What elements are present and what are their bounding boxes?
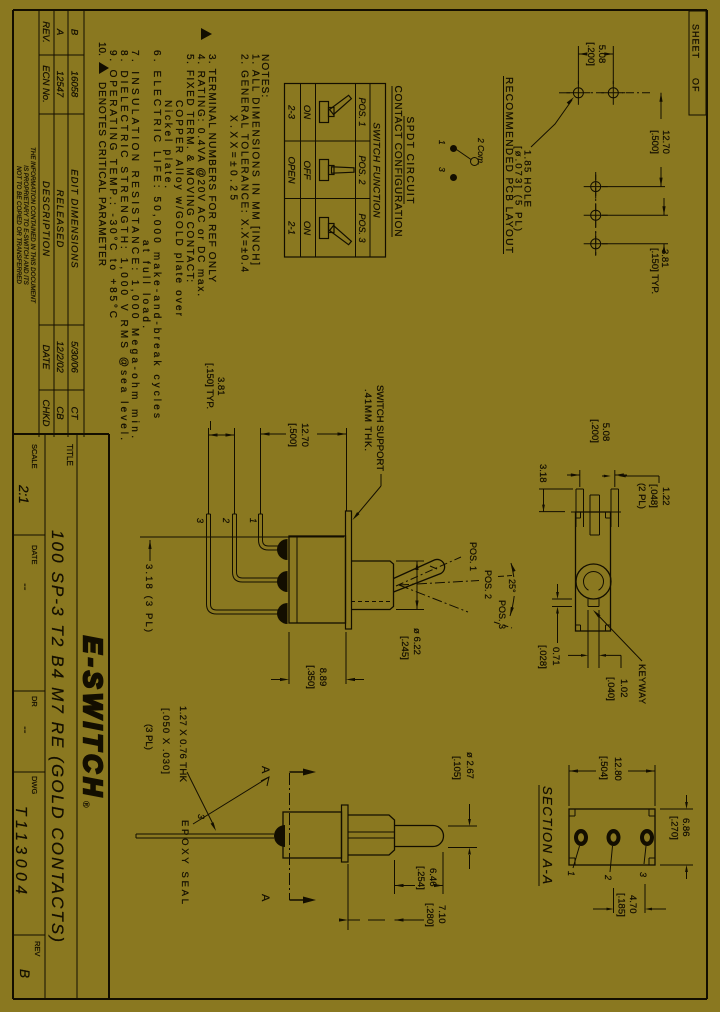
dim 4.70 ext lines [644, 884, 646, 913]
svg-text:[.500]: [.500] [287, 423, 298, 447]
svg-text:1.27 X 0.76 THK: 1.27 X 0.76 THK [177, 706, 188, 783]
svg-text:.41MM THK.: .41MM THK. [362, 389, 373, 451]
title block cell dividers [13, 534, 45, 536]
svg-text:ø 2.67: ø 2.67 [464, 752, 475, 779]
svg-text:[.050 X .030]: [.050 X .030] [160, 708, 171, 774]
dim 5.08 ext lines [612, 46, 614, 84]
svg-text:[.504]: [.504] [598, 756, 609, 780]
svg-text:KEYWAY: KEYWAY [637, 664, 647, 704]
dim 8.89 arrows [355, 679, 364, 681]
circuit contact 3 [451, 175, 457, 181]
svg-text:3: 3 [638, 872, 648, 877]
toggle icon pos3 [320, 218, 329, 239]
svg-text:ø 6.22: ø 6.22 [411, 628, 422, 655]
svg-text:--: -- [19, 726, 31, 734]
svg-text:OF: OF [691, 78, 701, 93]
svg-text:2-3: 2-3 [286, 104, 297, 119]
lower view body [283, 812, 342, 858]
svg-text:1.22: 1.22 [660, 487, 671, 506]
svg-text:at full load.: at full load. [140, 240, 151, 328]
terminal pin 3 [207, 514, 279, 614]
svg-text:EDIT DIMENSIONS: EDIT DIMENSIONS [69, 169, 80, 268]
svg-text:--: -- [19, 583, 31, 591]
svg-text:3: 3 [437, 167, 447, 172]
svg-text:E-SWITCH: E-SWITCH [78, 636, 108, 797]
svg-text:3. TERMINAL NUMBERS FOR REF ON: 3. TERMINAL NUMBERS FOR REF ONLY [206, 54, 217, 282]
svg-text:DENOTES CRITICAL PARAMETER: DENOTES CRITICAL PARAMETER [96, 82, 107, 266]
pos3 centerline [399, 585, 468, 612]
svg-text:3: 3 [195, 518, 205, 523]
dim 3.81 line+arrows [663, 198, 665, 215]
dim 6.22 ext lines [396, 560, 424, 562]
svg-text:3.18: 3.18 [537, 464, 548, 483]
section corner notches [649, 815, 655, 817]
svg-text:OPEN: OPEN [286, 157, 297, 184]
dim 12.80 ext lines [654, 765, 656, 806]
side view body [289, 536, 346, 623]
svg-text:[.500]: [.500] [649, 130, 660, 154]
leader 1.85 hole [531, 100, 572, 147]
svg-text:2: 2 [221, 517, 231, 523]
svg-text:X.XX=±0.25: X.XX=±0.25 [228, 115, 239, 200]
dim 2.67 arrows [469, 804, 471, 819]
pos2 centerline [399, 581, 479, 586]
epoxy seal blob [274, 825, 285, 847]
svg-text:COPPER Alloy w/GOLD plate over: COPPER Alloy w/GOLD plate over [173, 100, 184, 317]
dim 3.81 ext lines [602, 214, 668, 216]
end view corner notches [606, 517, 611, 519]
dim 6.46 ext lines [442, 852, 444, 894]
end view lever prong [599, 495, 601, 535]
section arrow left [290, 771, 309, 773]
lower view support plate [342, 805, 349, 862]
svg-text:[.150] TYP.: [.150] TYP. [204, 363, 215, 409]
svg-text:5.08: 5.08 [596, 45, 607, 64]
end view support leg lower [583, 489, 585, 512]
section terminals [640, 829, 654, 846]
dim 3.18b line+arrow [543, 489, 545, 512]
svg-text:DESCRIPTION: DESCRIPTION [40, 181, 51, 257]
dim 7.10 line+arrows [395, 919, 425, 921]
dim 1.22 leader [658, 476, 660, 483]
leader switch support [380, 474, 382, 486]
section arrow right [290, 899, 309, 901]
svg-text:SHEET: SHEET [691, 24, 701, 59]
svg-text:[.048]: [.048] [648, 484, 659, 508]
lower view bushing slot [348, 831, 395, 833]
end view inner circle [584, 572, 604, 591]
dim 5.08 line+arrows [610, 53, 613, 55]
svg-text:[.185]: [.185] [616, 893, 627, 917]
dim 6.22 line+arrows [416, 561, 418, 610]
svg-text:16058: 16058 [69, 71, 80, 98]
lower view bushing [348, 815, 395, 855]
svg-text:1.02: 1.02 [618, 679, 629, 698]
svg-text:DATE: DATE [30, 545, 39, 564]
svg-text:2: 2 [603, 874, 613, 880]
end view bushing circle [576, 564, 611, 599]
svg-text:CB: CB [54, 406, 65, 420]
svg-text:[.350]: [.350] [305, 665, 316, 689]
svg-text:7.10: 7.10 [436, 905, 447, 924]
critical triangle note4 [201, 28, 212, 40]
dim 7.10 ext line [347, 864, 349, 930]
leader epoxy seal [193, 777, 269, 824]
svg-text:12.80: 12.80 [612, 757, 623, 781]
svg-text:A: A [54, 28, 65, 35]
keyway leader [595, 612, 642, 661]
svg-text:[.270]: [.270] [669, 816, 680, 840]
svg-text:RELEASED: RELEASED [54, 190, 65, 249]
dim 1.02 arrows [604, 654, 621, 656]
svg-text:REV.: REV. [40, 21, 51, 42]
svg-text:SCALE: SCALE [30, 444, 39, 469]
svg-text:8. DIELECTRIC STRENGTH: 1,000: 8. DIELECTRIC STRENGTH: 1,000 V RMS @sea… [118, 50, 129, 440]
svg-text:1: 1 [248, 518, 258, 523]
dim 12.70 ext lines [602, 186, 665, 188]
svg-text:POS. 3: POS. 3 [357, 213, 367, 242]
dim 12.80 line+arrows [628, 770, 655, 772]
dim 12.70b line+arrows [317, 433, 347, 435]
svg-text:[.150] TYP.: [.150] TYP. [649, 248, 660, 294]
svg-text:[.280]: [.280] [424, 903, 435, 927]
dim 6.86 line+arrows [686, 795, 688, 802]
svg-text:[.040]: [.040] [605, 677, 616, 701]
dim 3.81b ext lines [234, 428, 236, 514]
terminal pin 1 [259, 514, 279, 550]
circuit common terminal [471, 158, 479, 166]
svg-text:6. ELECTRIC LIFE: 50,000 make-: 6. ELECTRIC LIFE: 50,000 make-and-break … [151, 50, 162, 418]
dim 5.08b line+arrows [615, 474, 627, 476]
side view body seam [296, 536, 298, 623]
drawing frame border [706, 10, 708, 999]
section view body [569, 809, 655, 865]
svg-text:3.18 (3 PL): 3.18 (3 PL) [143, 564, 154, 632]
side view support plate [346, 511, 352, 629]
svg-text:12547: 12547 [54, 71, 65, 98]
pcb holes (5 PL) [573, 88, 583, 98]
svg-text:2 Com.: 2 Com. [476, 137, 486, 165]
switch function table grid [285, 84, 386, 258]
lower view lever [395, 826, 444, 847]
svg-text:CHKD: CHKD [40, 400, 51, 427]
svg-text:2:1: 2:1 [16, 484, 31, 504]
svg-text:8.89: 8.89 [317, 668, 328, 687]
svg-text:SWITCH FUNCTION: SWITCH FUNCTION [371, 123, 382, 218]
svg-text:[.105]: [.105] [451, 756, 462, 780]
svg-text:5. FIXED TERM. & MOVING CONTAC: 5. FIXED TERM. & MOVING CONTACT: [184, 54, 195, 282]
svg-text:CT: CT [69, 407, 80, 421]
revision table grid [83, 10, 85, 437]
svg-text:SPDT CIRCUIT: SPDT CIRCUIT [404, 117, 415, 204]
toggle icon pos2 [320, 160, 329, 181]
dim 0.71 ext lines [552, 598, 572, 600]
svg-text:POS. 3: POS. 3 [497, 600, 507, 629]
sheet-of box [689, 11, 706, 115]
dim 3.81b leader [210, 421, 212, 430]
svg-text:[.028]: [.028] [537, 645, 548, 669]
dim 4.70 line+arrows [652, 908, 666, 910]
dim 12.70 line+arrows [660, 93, 662, 119]
svg-text:2. GENERAL TOLERANCE: X.X=±0.4: 2. GENERAL TOLERANCE: X.X=±0.4 [239, 54, 250, 272]
svg-text:NOTES:: NOTES: [259, 54, 270, 98]
svg-text:7. INSULATION RESISTANCE: 1,00: 7. INSULATION RESISTANCE: 1,000 Mega-ohm… [129, 50, 140, 438]
circuit contact 1 [451, 146, 457, 152]
critical triangle note10 [99, 62, 109, 74]
svg-text:(3 PL): (3 PL) [143, 724, 154, 750]
svg-text:POS. 1: POS. 1 [357, 97, 367, 126]
terminal pin 2 [233, 514, 279, 582]
svg-text:SECTION A-A: SECTION A-A [540, 786, 555, 884]
svg-text:IS PROPRIETARY TO E-SWITCH AND: IS PROPRIETARY TO E-SWITCH AND ITS [22, 165, 29, 285]
end view flange edge [611, 511, 622, 513]
dim 12.70b ext lines [346, 428, 348, 511]
svg-text:12/2/02: 12/2/02 [54, 341, 65, 373]
svg-text:SWITCH SUPPORT: SWITCH SUPPORT [374, 385, 385, 471]
svg-text:®: ® [81, 801, 91, 808]
dim 6.86 ext lines [660, 808, 693, 810]
svg-text:3.81: 3.81 [215, 377, 226, 396]
pos1 axis line [396, 557, 461, 586]
svg-text:2-1: 2-1 [286, 220, 297, 235]
svg-text:THE INFORMATION CONTAINED IN T: THE INFORMATION CONTAINED IN THIS DOCUME… [29, 147, 36, 304]
pcb centerline horizontal [595, 172, 597, 255]
svg-text:12.70: 12.70 [299, 423, 310, 447]
svg-text:1. ALL DIMENSIONS IN MM [INCH]: 1. ALL DIMENSIONS IN MM [INCH] [250, 54, 261, 265]
bushing thread hidden line [351, 601, 390, 603]
svg-text:25°: 25° [507, 579, 517, 593]
dim 3.18b ext line [539, 511, 565, 513]
svg-text:POS. 2: POS. 2 [483, 570, 493, 599]
svg-text:B: B [69, 29, 80, 36]
svg-text:6.86: 6.86 [680, 818, 691, 837]
svg-text:4.70: 4.70 [627, 895, 638, 914]
title block outline [108, 434, 110, 999]
svg-text:T113004: T113004 [12, 806, 29, 894]
svg-text:DR: DR [30, 696, 39, 707]
svg-text:EPOXY SEAL: EPOXY SEAL [179, 820, 190, 904]
svg-text:Nickel plate.: Nickel plate. [162, 100, 173, 188]
svg-text:3.81: 3.81 [659, 249, 670, 268]
end view body [576, 512, 611, 631]
section cut line A-A [289, 773, 291, 900]
svg-text:B: B [17, 969, 32, 978]
dim 3.81b line+arrows [209, 434, 235, 436]
mounting plane ext line [140, 536, 344, 538]
leader 1.27 [187, 772, 214, 826]
dim 6.46 line+arrows [439, 885, 443, 887]
svg-text:DWG: DWG [30, 776, 39, 794]
dim 8.89 ext lines [345, 632, 347, 684]
svg-text:A: A [259, 766, 271, 774]
lever center tick [430, 566, 437, 569]
dim 0.71 arrows [557, 584, 559, 592]
svg-text:RECOMMENDED PCB LAYOUT: RECOMMENDED PCB LAYOUT [503, 77, 514, 253]
svg-text:100 SP-3 T2 B4 M7 RE (GOLD CON: 100 SP-3 T2 B4 M7 RE (GOLD CONTACTS) [48, 530, 67, 942]
bushing [351, 561, 394, 610]
svg-text:POS. 1: POS. 1 [468, 542, 478, 571]
lower terminal pin [136, 833, 274, 835]
circuit lever wire [457, 150, 472, 160]
svg-text:OFF: OFF [301, 161, 312, 181]
dim 25 arc [511, 563, 514, 577]
pcb centerline vertical [622, 92, 650, 94]
svg-text:TITLE: TITLE [65, 444, 74, 466]
dim 5.08b ext lines [614, 470, 616, 487]
svg-text:0.71: 0.71 [550, 647, 561, 666]
svg-text:A: A [259, 894, 271, 902]
svg-text:12.70: 12.70 [660, 130, 671, 154]
svg-text:5/30/06: 5/30/06 [69, 341, 80, 373]
svg-text:6.46: 6.46 [427, 868, 438, 887]
svg-text:ECN No.: ECN No. [40, 65, 51, 102]
svg-text:DATE: DATE [40, 345, 51, 370]
toggle icon pos1 [320, 102, 329, 123]
svg-text:[.200]: [.200] [589, 419, 600, 443]
svg-text:[.254]: [.254] [415, 866, 426, 890]
end view keyway notch [598, 599, 600, 607]
terminal contact bumps [277, 539, 288, 560]
svg-text:1: 1 [437, 140, 447, 145]
svg-text:(2 PL): (2 PL) [636, 483, 647, 509]
dim 3.18 (3 PL) arrow [149, 540, 151, 561]
svg-text:CONTACT CONFIGURATION: CONTACT CONFIGURATION [392, 86, 403, 237]
dim 1.02 ext lines [598, 610, 600, 668]
svg-text:POS. 2: POS. 2 [357, 155, 367, 184]
section terminal leaders [644, 846, 646, 864]
svg-text:NOT TO BE COPIED OR TRANSFERRE: NOT TO BE COPIED OR TRANSFERRED [15, 166, 22, 284]
svg-text:1: 1 [566, 871, 576, 876]
svg-text:ON: ON [301, 105, 312, 119]
svg-text:5.08: 5.08 [600, 423, 611, 442]
toggle lever [394, 559, 445, 592]
svg-text:REV: REV [33, 941, 42, 956]
svg-text:9. OPERATING TEMP.: -30°C to +: 9. OPERATING TEMP.: -30°C to +85°C [107, 50, 118, 318]
svg-text:ON: ON [301, 221, 312, 235]
svg-text:4. RATING: 0.4VA @20V AC or DC: 4. RATING: 0.4VA @20V AC or DC max. [195, 54, 206, 296]
svg-text:10.: 10. [96, 42, 107, 56]
end view support leg upper [618, 489, 620, 512]
svg-text:[.200]: [.200] [585, 42, 596, 66]
dim 2.67 ext lines [448, 825, 477, 827]
svg-text:[.245]: [.245] [399, 636, 410, 660]
